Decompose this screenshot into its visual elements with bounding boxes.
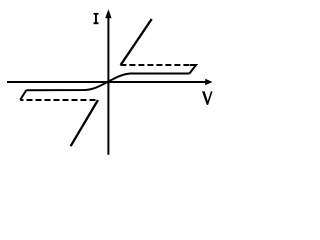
dashed jump line Q3 (20, 99, 98, 101)
dashed jump line Q1 (120, 64, 190, 66)
curve: off-state S branch through origin (26, 74, 189, 91)
axis I (vertical) (107, 17, 109, 155)
axis V (horizontal) (7, 81, 206, 83)
hook Q1 (breakover jump right) (190, 65, 197, 74)
on-state diagonal Q3 (71, 100, 98, 146)
arrowhead V axis (205, 79, 212, 85)
arrowhead I axis (105, 9, 111, 18)
hook Q3 (breakover jump left) (20, 90, 26, 100)
on-state diagonal Q1 (121, 19, 152, 65)
label I (94, 13, 99, 24)
label V (202, 91, 213, 105)
